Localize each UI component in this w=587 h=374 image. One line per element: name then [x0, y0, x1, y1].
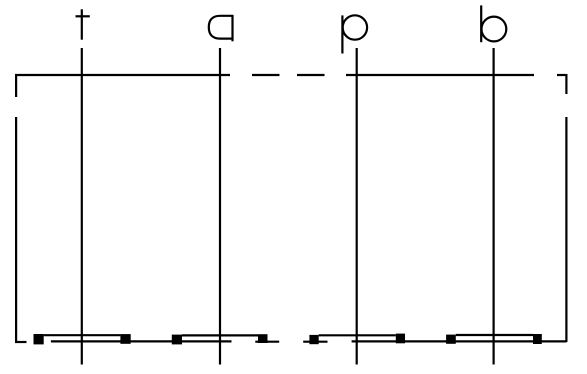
label p	[342, 15, 367, 53]
top rail dash 1	[252, 74, 280, 76]
top rail dash 2	[297, 74, 325, 76]
top rail left segment	[15, 74, 230, 76]
link bar lower stub right of square 4	[255, 341, 279, 343]
link bar upper D	[456, 334, 533, 336]
link bar upper A	[44, 334, 121, 336]
right border upper segment	[565, 74, 567, 94]
top rail right segment	[346, 74, 534, 76]
label b	[481, 5, 506, 42]
contact square 7	[446, 335, 456, 344]
contact square 3	[172, 335, 182, 345]
right border lower segment	[565, 117, 567, 342]
contact square 1	[34, 334, 44, 344]
contact square 6	[396, 334, 405, 344]
conductor t	[81, 48, 83, 365]
left border upper segment	[15, 74, 17, 97]
contact square 8	[533, 334, 542, 344]
left border lower segment	[15, 117, 17, 343]
link bar upper B	[182, 334, 258, 336]
link bar upper C	[319, 334, 396, 336]
conductor b	[493, 48, 495, 365]
contact square 5	[309, 335, 318, 344]
left border foot	[15, 341, 27, 343]
label t	[76, 9, 90, 39]
conductor p	[356, 48, 358, 365]
top rail right corner stub	[557, 74, 566, 76]
link bar lower stub left of square 5	[303, 341, 327, 343]
link bar lower right-cell with right border foot	[352, 340, 567, 342]
link bar lower left-cell	[51, 340, 232, 342]
contact square 2	[120, 334, 130, 344]
label a	[209, 15, 233, 41]
contact square 4	[258, 334, 268, 343]
conductor a	[219, 48, 221, 365]
